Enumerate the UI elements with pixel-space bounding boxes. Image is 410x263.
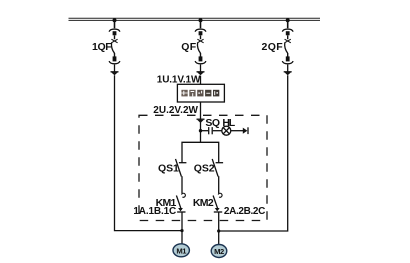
wire	[287, 53, 289, 57]
fixed contact tick	[179, 162, 187, 164]
svg-text:M2: M2	[214, 247, 224, 256]
wire	[181, 176, 183, 193]
wire	[114, 53, 116, 57]
svg-text:QS2: QS2	[194, 163, 215, 175]
breaker contact X	[197, 39, 203, 43]
drawout moving plug (lower)	[113, 56, 117, 61]
drawout moving plug (upper)	[286, 31, 290, 35]
disconnector QS2	[194, 159, 223, 194]
bus (double horizontal line)	[69, 18, 321, 20]
svg-text:KM2: KM2	[193, 197, 214, 209]
breaker 1QF (withdrawable)	[92, 18, 120, 75]
svg-text:2U.2V.2W: 2U.2V.2W	[153, 105, 198, 116]
svg-text:2QF: 2QF	[262, 41, 284, 53]
wire	[200, 53, 202, 57]
outgoing arrow head	[284, 72, 291, 75]
blade	[213, 196, 218, 210]
indicator lamp HL	[222, 126, 231, 135]
wire	[114, 35, 116, 39]
wire	[287, 65, 289, 72]
breaker contact X	[111, 39, 117, 43]
drawout moving plug (upper)	[113, 31, 117, 35]
value label: Chinese text (HV variable-frequency drive) simulated glyph blocks	[181, 90, 219, 97]
wire	[213, 130, 222, 132]
svg-text:QF: QF	[181, 41, 196, 53]
wire	[218, 212, 220, 231]
breaker blade	[285, 43, 288, 54]
wire: SQ branch horizontal	[201, 130, 209, 132]
wire	[231, 130, 243, 132]
svg-text:1QF: 1QF	[92, 41, 112, 53]
svg-text:M1: M1	[176, 246, 187, 255]
disconnector QS1	[158, 159, 186, 194]
lower contact tick	[177, 211, 185, 213]
motor M2	[211, 245, 227, 258]
node: bus junction dot	[199, 18, 203, 22]
outgoing arrow tick	[197, 71, 205, 73]
wire: M1 lead	[181, 231, 183, 244]
wire	[200, 35, 202, 39]
node: bus junction dot	[113, 18, 117, 22]
svg-text:SQ: SQ	[205, 117, 220, 129]
wire: VFD box down to splitter	[200, 102, 202, 143]
VFD box (高压变频器)	[177, 84, 224, 102]
node: junction dot M1 tap	[180, 229, 183, 232]
drawout fixed contact (lower arc)	[195, 61, 206, 64]
motor M1	[173, 244, 189, 257]
drawout fixed contact (upper arc)	[109, 29, 120, 32]
breaker blade	[111, 43, 114, 54]
breaker QF (withdrawable)	[181, 18, 206, 75]
wire: splitter bar	[182, 142, 219, 162]
svg-text:HL: HL	[222, 117, 235, 129]
arrow on VFD output line	[197, 119, 205, 123]
wire	[114, 20, 116, 28]
wire: 1QF bypass drop + bottom bypass bus left (to M1 node)	[115, 75, 183, 230]
wire	[287, 20, 289, 28]
wire	[218, 176, 220, 193]
node: bus junction dot	[286, 18, 290, 22]
drawout fixed contact (upper arc)	[195, 29, 206, 32]
blade	[176, 159, 182, 177]
breaker contact X	[285, 39, 291, 43]
arrow tick	[247, 127, 249, 134]
drawout moving plug (lower)	[199, 56, 203, 61]
outgoing arrow head	[197, 72, 204, 75]
arrow right at dashed edge	[243, 128, 248, 134]
svg-text:2A.2B.2C: 2A.2B.2C	[224, 206, 265, 217]
node: junction dot M2 tap	[217, 229, 220, 232]
SQ contact (two bars)	[209, 127, 213, 134]
moving arrow head	[215, 208, 220, 211]
drawout fixed contact (lower arc)	[282, 61, 293, 64]
svg-text:1A.1B.1C: 1A.1B.1C	[133, 206, 176, 217]
node: junction dot for SQ tap	[199, 129, 202, 132]
dashed enclosure (VFD cubicle)	[139, 115, 267, 220]
fixed contact tick	[216, 162, 224, 164]
breaker blade	[197, 43, 200, 54]
drawout moving plug (lower)	[286, 56, 290, 61]
fixed contact arc	[182, 193, 186, 197]
wire	[200, 65, 202, 72]
wire: QF to VFD box	[200, 76, 202, 85]
svg-text:QS1: QS1	[158, 163, 179, 175]
outgoing arrow tick	[111, 71, 119, 73]
blade	[176, 196, 181, 210]
breaker 2QF (withdrawable)	[262, 18, 294, 75]
drawout moving plug (upper)	[199, 31, 203, 35]
wire: M2 lead	[218, 231, 220, 245]
wire	[200, 20, 202, 28]
wire	[181, 212, 183, 231]
contactor KM2	[193, 193, 222, 231]
contactor KM1	[156, 193, 186, 230]
blade	[212, 159, 218, 177]
outgoing arrow head	[111, 72, 118, 75]
lower contact tick	[214, 211, 222, 213]
drawout fixed contact (upper arc)	[282, 29, 293, 32]
fixed contact arc	[218, 193, 222, 197]
wire	[114, 65, 116, 72]
outgoing arrow tick	[284, 71, 292, 73]
drawout fixed contact (lower arc)	[109, 61, 120, 64]
wire: 2QF bypass drop + bottom bypass bus right (to M2 node)	[219, 75, 288, 231]
moving arrow head	[178, 208, 183, 211]
wire	[287, 35, 289, 39]
